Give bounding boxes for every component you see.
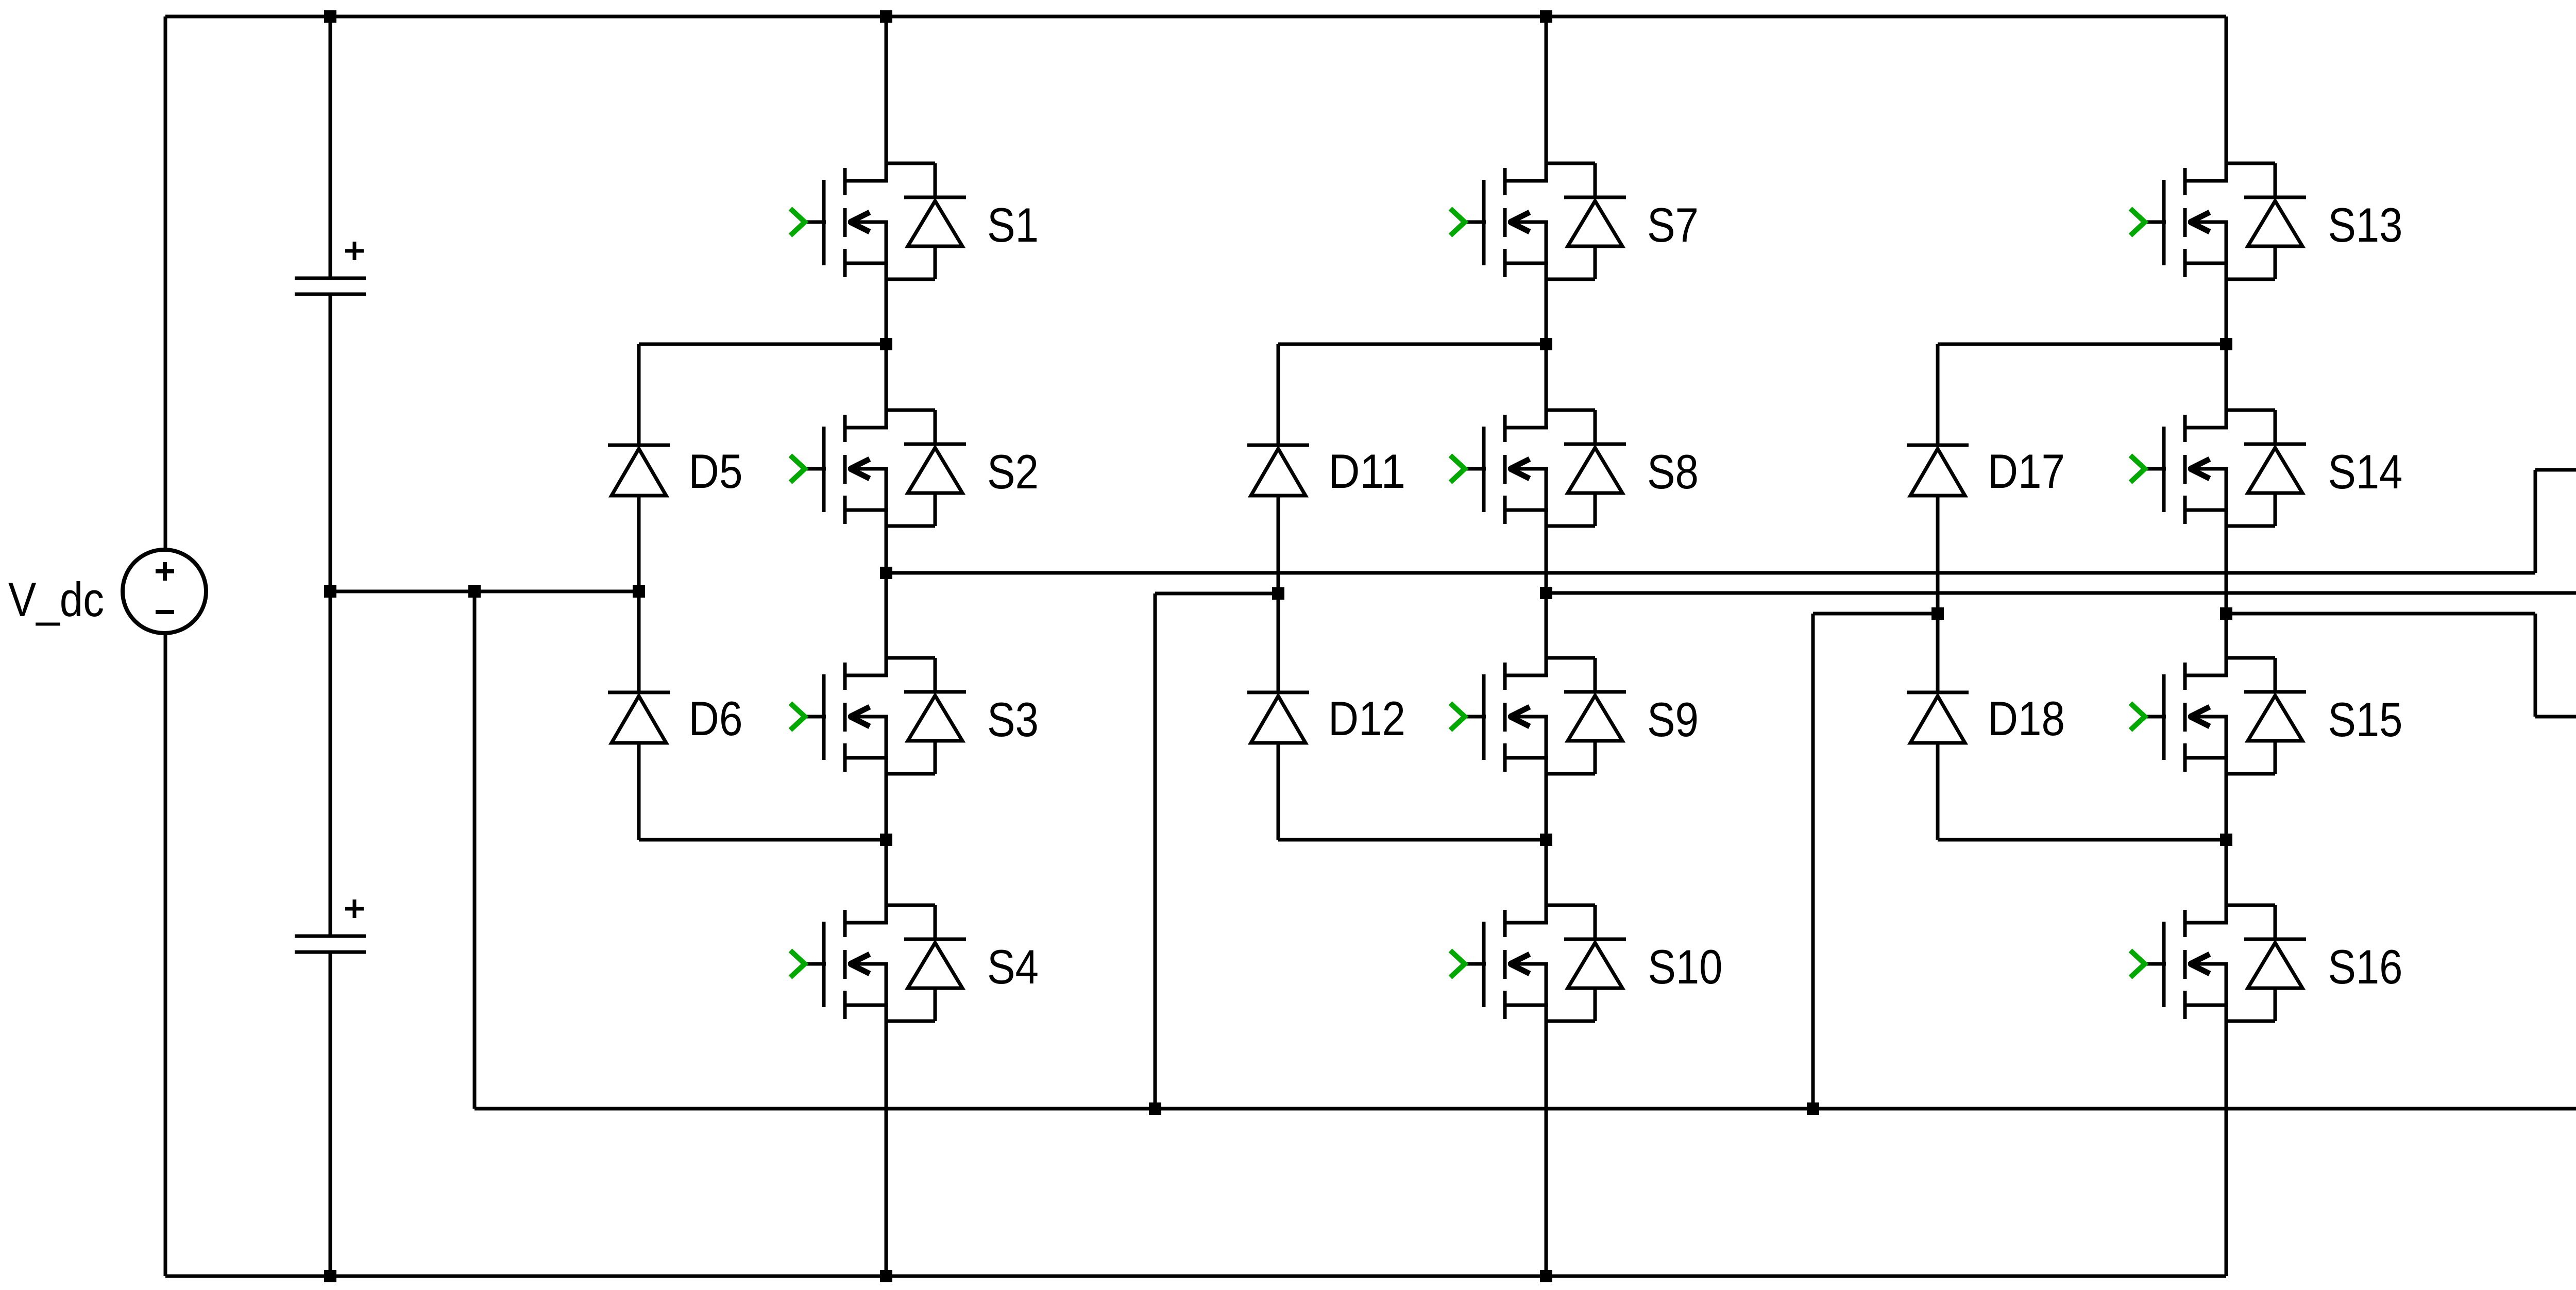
node midpoint drop [468,585,481,598]
wire midpoint drop [473,591,477,1109]
wire leg x=4321 seg5 [2225,964,2228,1276]
wire leg x=4321 seg4 [2225,717,2228,923]
node +DC leg2 [1540,10,1552,23]
wire leg x=4321 seg1 [2225,16,2228,181]
node midpoint cap [324,585,336,598]
node phase A [880,567,892,579]
node -DC cap [324,1270,336,1282]
node +DC cap [324,10,336,23]
wire leg x=3001 seg5 [1545,964,1548,1276]
wire +DC top rail [165,15,2226,19]
wire neutral link vert x=2242 [1154,593,1157,1109]
transistor S9 [1450,658,1699,774]
wire leg x=4321 seg2 [2225,222,2228,428]
wire clamp mid lead x=1240 [637,496,641,692]
node neutral leg2 [1149,1102,1161,1115]
node A1 leg1 [880,338,892,350]
node midpoint leg1 [633,585,645,598]
transistor S8 [1450,410,1699,526]
wire -DC bottom rail [165,1275,2226,1278]
wire leg x=1720 seg3 [885,469,888,675]
transistor S14 [2130,410,2403,526]
transistor S3 [790,658,1039,774]
wire clamp top x=3761 [1938,343,2226,346]
diode D18 [1907,691,2065,745]
diode D5 [608,444,743,498]
svg-text:S4: S4 [987,940,1039,994]
wire leg x=1720 seg4 [885,717,888,923]
transistor S1 [790,163,1039,279]
diode D12 [1247,691,1405,745]
voltage source V_dc [8,550,206,633]
transistor S7 [1450,163,1699,279]
wire phase C jog down [2534,614,2537,717]
wire leg x=3001 seg1 [1545,16,1548,181]
transistor S2 [790,410,1039,526]
wire clamp bottom x=2481 [1278,838,1546,842]
diode D17 [1907,444,2065,498]
wire leg x=3001 seg3 [1545,469,1548,675]
diode D11 [1247,444,1405,498]
wire clamp lower lead x=1240 [637,742,641,840]
wire clamp bottom x=3761 [1938,838,2226,842]
capacitor C_dc_bottom [295,899,366,952]
node -DC leg1 [880,1270,892,1282]
transistor S10 [1450,905,1723,1021]
wire neutral link vert x=3519 [1811,614,1815,1109]
svg-text:S2: S2 [987,445,1039,499]
wire clamp lower lead x=3761 [1936,742,1940,840]
wire leg x=1720 seg5 [885,964,888,1276]
wire clamp bottom x=1240 [639,838,886,842]
svg-text:V_dc: V_dc [8,572,104,626]
svg-text:S15: S15 [2328,692,2403,746]
node phase B [1540,587,1552,599]
wire clamp top x=1240 [639,343,886,346]
svg-text:S13: S13 [2328,198,2403,252]
svg-text:S3: S3 [987,692,1039,746]
diode D6 [608,691,743,745]
wire clamp mid lead x=2481 [1277,496,1280,692]
node phase C [2220,607,2232,620]
wire leg x=3001 seg4 [1545,717,1548,923]
node A1 leg2 [1540,338,1552,350]
wire neutral link horiz x=2242 [1155,592,1278,596]
wire clamp upper lead x=1240 [637,344,641,445]
node A2 leg3 [2220,834,2232,846]
capacitor C_dc_top [295,242,366,294]
wire midpoint horizontal [330,590,639,593]
wire DC-link branch top [329,16,332,278]
node -DC leg2 [1540,1270,1552,1282]
wire phase C out [2226,612,2535,616]
wire clamp lower lead x=2481 [1277,742,1280,840]
wire leg x=3001 seg2 [1545,222,1548,428]
svg-text:D5: D5 [689,444,743,498]
svg-text:D11: D11 [1328,444,1405,498]
wire phase C to R3 [2535,715,2576,719]
wire clamp upper lead x=2481 [1277,344,1280,445]
wire clamp mid lead x=3761 [1936,496,1940,692]
wire clamp top x=2481 [1278,343,1546,346]
node clamp mid leg3 [1931,607,1944,620]
wire clamp upper lead x=3761 [1936,344,1940,445]
wire V_dc top lead [164,16,167,550]
wire phase A jog up [2534,470,2537,573]
wire neutral link horiz x=3519 [1813,612,1938,616]
svg-text:S9: S9 [1647,692,1699,746]
svg-text:S10: S10 [1648,940,1723,994]
transistor S16 [2130,905,2403,1021]
transistor S15 [2130,658,2403,774]
transistor S4 [790,905,1039,1021]
svg-text:S8: S8 [1647,445,1699,499]
wire phase A to R1 [2535,468,2576,472]
wire DC-link branch middle [329,295,332,936]
node clamp mid leg2 [1272,587,1284,600]
svg-text:D17: D17 [1988,444,2065,498]
transistor S13 [2130,163,2403,279]
wire phase B out [1546,591,2576,595]
svg-text:S1: S1 [987,198,1039,252]
node A2 leg2 [1540,834,1552,846]
svg-text:S7: S7 [1647,198,1699,252]
svg-text:S16: S16 [2328,940,2403,994]
wire neutral bus [474,1107,2576,1111]
wire leg x=1720 seg1 [885,16,888,181]
node neutral leg3 [1807,1102,1819,1115]
wire phase A out [886,571,2535,575]
node A1 leg3 [2220,338,2232,350]
node A2 leg1 [880,834,892,846]
wire leg x=4321 seg3 [2225,469,2228,675]
svg-text:S14: S14 [2328,445,2403,499]
wire DC-link branch bottom [329,953,332,1276]
svg-text:D12: D12 [1328,691,1405,745]
node +DC leg1 [880,10,892,23]
wire V_dc bottom lead [164,633,167,1276]
svg-text:D18: D18 [1988,691,2065,745]
svg-text:D6: D6 [689,691,743,745]
wire leg x=1720 seg2 [885,222,888,428]
